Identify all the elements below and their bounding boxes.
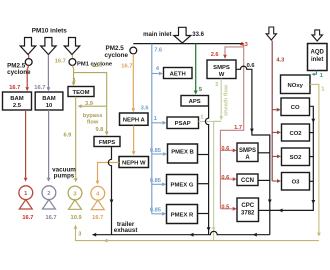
svg-text:9.8: 9.8 — [95, 127, 103, 133]
inlet arrow 1 — [20, 38, 36, 55]
svg-text:PSAP: PSAP — [175, 121, 191, 127]
wire black trailer exhaust line — [93, 231, 270, 234]
wire to CO2 — [272, 131, 277, 133]
svg-text:FMPS: FMPS — [99, 140, 115, 146]
instrument PMEX R — [167, 205, 198, 224]
wire CCN exhaust stub — [258, 179, 270, 181]
wire black SMPS W exhaust — [236, 66, 270, 235]
svg-text:BAM: BAM — [10, 96, 24, 102]
wire PSAP exhaust to sheath — [199, 120, 222, 122]
svg-text:0.5: 0.5 — [221, 205, 229, 211]
wire green to APS — [195, 44, 197, 91]
svg-text:0.85: 0.85 — [150, 148, 161, 154]
instrument O3 — [282, 173, 310, 191]
instrument AQD inlet — [308, 44, 328, 71]
wire blue to PSAP — [152, 122, 163, 124]
wire red to CPC — [220, 208, 232, 210]
svg-text:4.3: 4.3 — [276, 58, 284, 64]
instrument AETH — [164, 68, 193, 79]
wire olive TEOM to pump3 — [75, 97, 77, 179]
wire black gas exhaust collector — [270, 106, 314, 210]
wire sheath return down — [214, 121, 222, 240]
wire red to BAM 2.5 — [27, 65, 29, 87]
svg-text:pumps: pumps — [54, 173, 75, 180]
svg-text:1: 1 — [200, 114, 203, 120]
svg-text:5: 5 — [199, 87, 202, 93]
svg-text:33.6: 33.6 — [192, 32, 204, 38]
svg-text:3782: 3782 — [241, 211, 255, 217]
wire black APS exhaust collector — [205, 106, 208, 235]
wire orange NEPH W to pump4 — [98, 163, 120, 181]
svg-text:7.6: 7.6 — [154, 47, 162, 53]
svg-text:0.6: 0.6 — [221, 146, 229, 152]
instrument PMEX G — [167, 175, 198, 194]
instrument SO2 — [282, 148, 310, 166]
wire teal AQD to NOxy — [315, 71, 317, 75]
svg-text:flow: flow — [87, 119, 99, 125]
svg-text:SMPS: SMPS — [239, 148, 256, 154]
inlet arrow 2 — [41, 38, 57, 55]
svg-text:2.5: 2.5 — [13, 103, 22, 109]
instrument TEOM — [68, 87, 94, 97]
svg-text:2: 2 — [215, 82, 218, 88]
wire red BAM2.5 to pump1 — [25, 110, 27, 178]
instrument CPC 3782 — [237, 198, 259, 222]
wire orange NEPH A to NEPH W — [133, 125, 135, 151]
svg-text:sheath flow: sheath flow — [224, 84, 230, 116]
wire orange cyclone to NEPH A — [132, 54, 134, 109]
svg-text:10.9: 10.9 — [71, 215, 82, 221]
instrument CO2 — [282, 124, 310, 141]
svg-text:PM2.5: PM2.5 — [106, 45, 125, 52]
svg-text:A: A — [245, 155, 250, 161]
svg-text:exhaust: exhaust — [114, 227, 139, 234]
pump 2 — [42, 186, 57, 221]
svg-text:NOxy: NOxy — [288, 83, 304, 89]
svg-text:1: 1 — [154, 116, 157, 122]
wire red to SMPS W — [225, 47, 244, 55]
instrument PMEX B — [168, 144, 198, 163]
svg-text:3.9: 3.9 — [85, 101, 93, 107]
svg-text:2: 2 — [47, 191, 50, 197]
svg-text:16.7: 16.7 — [55, 59, 66, 65]
svg-text:3.6: 3.6 — [141, 105, 149, 111]
svg-text:AQD: AQD — [311, 50, 325, 56]
svg-text:0.6: 0.6 — [247, 63, 255, 69]
svg-text:1: 1 — [320, 73, 323, 79]
wire red to CCN — [220, 178, 232, 180]
svg-text:NEPH W: NEPH W — [122, 160, 146, 166]
wire blue to PMEX B — [152, 153, 163, 155]
wire red feed from main — [220, 44, 243, 209]
wire CPC exhaust stub — [259, 209, 270, 211]
svg-text:NEPH A: NEPH A — [123, 118, 146, 124]
svg-text:0.85: 0.85 — [150, 178, 161, 184]
wire to SO2 — [272, 155, 277, 157]
instrument BAM 2.5 — [3, 92, 32, 110]
wire to O3 — [272, 180, 277, 182]
main inlet arrow — [174, 27, 191, 43]
wire red to SMPS A — [220, 149, 232, 151]
svg-text:CPC: CPC — [241, 203, 254, 209]
instrument SMPS A — [237, 143, 258, 162]
svg-text:SMPS: SMPS — [213, 65, 230, 71]
svg-text:PMEX R: PMEX R — [171, 212, 194, 218]
pump 3 — [68, 186, 82, 221]
svg-text:16.7: 16.7 — [92, 215, 103, 221]
svg-text:O3: O3 — [292, 180, 301, 186]
wire dark red gas feed — [271, 41, 273, 181]
instrument FMPS — [94, 137, 120, 147]
svg-text:cyclone: cyclone — [105, 52, 129, 59]
svg-text:CCN: CCN — [241, 178, 254, 184]
wire PMEX G stub — [198, 183, 209, 185]
wire olive inlet drop — [71, 55, 73, 59]
svg-text:1: 1 — [321, 87, 324, 93]
svg-text:PM10 inlets: PM10 inlets — [32, 28, 68, 35]
svg-text:1.7: 1.7 — [234, 125, 242, 131]
wire blue to PMEX R — [152, 213, 162, 215]
cyclone PM2.5 left circle — [25, 59, 32, 66]
small inlet arrow (gas line) — [266, 27, 276, 40]
svg-text:SO2: SO2 — [290, 155, 303, 161]
svg-text:PMEX G: PMEX G — [171, 182, 194, 188]
wire NOxy exhaust olive — [310, 84, 319, 234]
wire gray BAM10 to pump2 — [48, 110, 50, 178]
svg-text:16.7: 16.7 — [9, 85, 20, 91]
wire blue main drop — [151, 44, 153, 214]
svg-text:0.85: 0.85 — [150, 208, 161, 214]
svg-text:BAM: BAM — [42, 96, 56, 102]
instrument NEPH W — [119, 157, 149, 168]
svg-text:16.7: 16.7 — [34, 85, 45, 91]
svg-text:10: 10 — [46, 103, 53, 109]
svg-text:CO2: CO2 — [289, 131, 302, 137]
wire blue to PMEX G — [152, 183, 162, 185]
svg-text:16.7: 16.7 — [22, 215, 33, 221]
svg-text:2.6: 2.6 — [211, 52, 219, 58]
wire olive bypass return — [82, 105, 107, 107]
svg-text:6.9: 6.9 — [63, 133, 71, 139]
wire olive bypass branch — [74, 73, 107, 132]
svg-text:16.7: 16.7 — [121, 63, 132, 69]
svg-text:AETH: AETH — [170, 71, 186, 77]
wire PMEX B stub — [198, 154, 209, 156]
wire olive cyclone to TEOM — [72, 65, 73, 82]
wire olive return line — [76, 229, 319, 241]
inlet arrow 3 — [64, 38, 80, 55]
svg-text:3: 3 — [72, 78, 75, 84]
wire blue to AETH — [152, 73, 159, 75]
svg-text:CO: CO — [291, 105, 300, 111]
instrument NEPH A — [120, 113, 149, 125]
wire main inlet line — [133, 43, 243, 45]
instrument CO — [281, 98, 310, 116]
wire gray to BAM 10 — [47, 55, 49, 88]
svg-text:W: W — [219, 72, 225, 78]
wire red inlet drop — [28, 55, 30, 59]
svg-text:bypass: bypass — [83, 113, 103, 119]
svg-text:TEOM: TEOM — [72, 90, 89, 96]
svg-text:inlet: inlet — [311, 57, 323, 63]
wire sheath flow from SMPS W — [220, 79, 222, 117]
instrument BAM 10 — [35, 92, 63, 110]
wire CO2 right stub — [310, 132, 314, 134]
wire PMEX R stub — [198, 213, 209, 215]
svg-text:0.6: 0.6 — [221, 175, 229, 181]
wire SMPS A exhaust stub — [258, 152, 270, 154]
svg-text:3: 3 — [78, 232, 81, 238]
pump 4 — [91, 186, 105, 220]
svg-text:16.7: 16.7 — [45, 215, 56, 221]
wire O3 right stub — [310, 180, 314, 182]
cyclone PM2.5 main circle — [130, 47, 137, 54]
instrument SMPS W — [207, 60, 236, 79]
svg-text:13.7: 13.7 — [92, 63, 103, 69]
pump 1 — [19, 186, 34, 221]
wire to CO — [272, 109, 276, 111]
AQD inlet arrow — [312, 30, 323, 41]
instrument PSAP — [167, 117, 199, 129]
wire SO2 right stub — [310, 156, 314, 158]
wire black FMPS exhaust — [108, 147, 111, 235]
instrument CCN — [237, 174, 258, 186]
cyclone PM1 circle — [69, 59, 76, 66]
svg-text:PMEX B: PMEX B — [171, 150, 194, 156]
instrument NOxy — [281, 75, 311, 94]
svg-text:main inlet: main inlet — [143, 31, 171, 38]
instrument APS — [181, 96, 209, 107]
svg-text:APS: APS — [189, 99, 201, 105]
